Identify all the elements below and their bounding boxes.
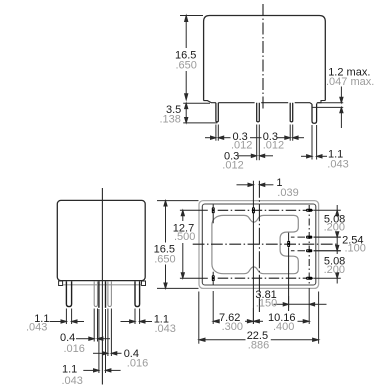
dim 10.16	[253, 320, 309, 323]
dim 3.5 top view	[183, 103, 217, 123]
dim 3.81	[274, 303, 327, 306]
hole right r1	[306, 209, 312, 212]
svg-text:.500: .500	[174, 231, 195, 243]
svg-text:.150: .150	[256, 298, 277, 310]
drill center dots	[213, 208, 309, 280]
pin wire left (black)	[98, 281, 100, 308]
hole column line right	[308, 205, 310, 285]
dim 1.1 pin A	[50, 309, 85, 325]
svg-text:.100: .100	[345, 243, 366, 255]
hole row line 3	[291, 250, 341, 252]
pin row2 thin (gray)	[94, 281, 97, 306]
svg-text:.886: .886	[248, 340, 269, 352]
centerline vertical (footprint)	[258, 181, 260, 312]
svg-text:.012: .012	[263, 139, 284, 151]
svg-text:.016: .016	[64, 343, 85, 355]
dim 2.54 right	[336, 237, 339, 251]
svg-text:.043: .043	[26, 322, 47, 334]
svg-text:1.1: 1.1	[62, 364, 77, 376]
hole column line mid	[252, 181, 254, 324]
svg-text:.039: .039	[277, 187, 298, 199]
pin 2 (0.3)	[257, 103, 260, 122]
svg-text:.047 max.: .047 max.	[326, 76, 374, 88]
hole column line left	[212, 205, 214, 285]
dim 16.5 top view	[180, 16, 203, 100]
row1 right extension	[314, 209, 341, 211]
hole left bottom	[212, 275, 215, 281]
hole right r4	[306, 277, 312, 280]
dim 16.5 left	[164, 201, 167, 289]
centerline front view	[101, 188, 103, 385]
svg-text:.043: .043	[327, 158, 348, 170]
seating plane line	[63, 284, 141, 286]
svg-text:.400: .400	[273, 321, 294, 333]
pin A (1.1 wide, left)	[66, 281, 71, 306]
hole right r3	[306, 249, 312, 252]
centerline horizontal (footprint)	[193, 243, 338, 245]
svg-text:.650: .650	[154, 253, 175, 265]
dim 1.2 max standoff	[312, 87, 343, 129]
hole row line 1	[180, 209, 208, 211]
outer case outline	[199, 201, 319, 289]
dim 1.1 pin B	[121, 309, 153, 325]
pin 1 (0.3)	[216, 103, 218, 122]
dim 1 offset top	[237, 183, 274, 186]
dim 0.3 pin2	[238, 125, 273, 161]
dim 1.1 between wires	[83, 309, 120, 373]
hole mid top	[252, 207, 255, 213]
relay body (side view)	[204, 16, 326, 101]
holes	[212, 207, 313, 281]
right extension lines rows 2,3	[314, 237, 341, 278]
hole row line 2	[291, 236, 341, 238]
pin 4 (1.1)	[312, 104, 317, 123]
hole row line 4	[180, 277, 208, 279]
internal blob outline	[212, 215, 298, 273]
dim 0.4 row2 pin	[76, 309, 110, 342]
inner outline	[202, 204, 315, 285]
svg-text:.200: .200	[324, 222, 345, 234]
svg-text:.138: .138	[160, 113, 181, 125]
hole left top	[212, 207, 215, 213]
svg-text:.043: .043	[62, 375, 83, 387]
hole notch	[287, 241, 290, 247]
standoff foot right	[142, 281, 146, 286]
dim 0.3 pin1 / pin3 row	[205, 125, 304, 141]
svg-text:.016: .016	[127, 358, 148, 370]
bottom extension lines	[199, 288, 319, 344]
footprint left extension lines	[157, 201, 199, 289]
dim 22.5	[199, 338, 319, 341]
svg-text:.300: .300	[222, 321, 243, 333]
pin wire right (black)	[105, 281, 107, 308]
dim 0.4 row3 pin	[93, 309, 122, 357]
svg-text:.012: .012	[222, 159, 243, 171]
hole column line notch	[288, 233, 290, 311]
dim 1.1 pin4	[301, 125, 327, 160]
svg-text:.012: .012	[231, 139, 252, 151]
dim 7.62	[213, 320, 253, 323]
svg-text:.200: .200	[324, 264, 345, 276]
relay body (front view)	[57, 200, 145, 280]
svg-text:.043: .043	[155, 323, 176, 335]
pin B (1.1 wide, right)	[135, 281, 140, 306]
hole right r2	[306, 236, 312, 239]
dim 5.08 upper right	[336, 205, 339, 237]
pin row3 thin (gray)	[108, 281, 112, 306]
dim 5.08 lower right	[336, 251, 339, 284]
dim 12.7 left	[181, 210, 184, 278]
centerline top view	[262, 4, 264, 109]
svg-text:.650: .650	[176, 59, 197, 71]
standoff foot left	[59, 281, 63, 286]
body bottom edge with flange	[204, 101, 326, 105]
pin 3 (0.3)	[290, 103, 293, 122]
